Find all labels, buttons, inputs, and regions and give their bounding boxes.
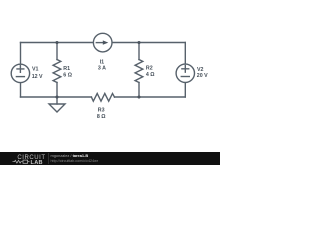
svg-text:R2: R2	[146, 66, 153, 72]
I1 arrow head	[103, 40, 109, 44]
svg-text:3 A: 3 A	[98, 66, 106, 72]
footer divider	[48, 153, 50, 164]
svg-text:R3: R3	[98, 107, 105, 113]
svg-text:8 Ω: 8 Ω	[97, 114, 106, 120]
ground triangle	[49, 104, 65, 112]
junction dot R1/ground bottom	[55, 95, 58, 98]
wire R2 top lead	[138, 43, 140, 60]
svg-text:V2: V2	[197, 67, 204, 73]
junction dot R2 top	[137, 41, 140, 44]
junction dot R1 top	[55, 41, 58, 44]
svg-text:R1: R1	[63, 66, 70, 72]
svg-text:I1: I1	[100, 59, 104, 65]
resistor R1	[53, 60, 61, 83]
svg-text:4 Ω: 4 Ω	[146, 72, 155, 78]
V1 minus sign	[16, 76, 24, 78]
resistor R3	[91, 94, 114, 102]
wire R1 bottom lead	[56, 83, 58, 98]
wire left vertical lower	[20, 83, 22, 97]
junction dot R2 bottom	[137, 95, 140, 98]
V1 plus sign	[17, 66, 24, 73]
resistor R2	[135, 60, 143, 83]
wire top right	[112, 42, 185, 44]
V2 minus sign	[181, 76, 189, 78]
svg-text:mgonzalez / tarea1-B: mgonzalez / tarea1-B	[51, 153, 89, 158]
wire R1 top lead	[56, 43, 58, 60]
wire R2 bottom lead	[138, 83, 140, 98]
svg-text:V1: V1	[32, 66, 39, 72]
wire right vertical lower	[184, 83, 186, 98]
wire top left (node A)	[21, 42, 94, 44]
svg-text:20 V: 20 V	[197, 73, 208, 79]
svg-text:6 Ω: 6 Ω	[63, 72, 72, 78]
current source I1	[93, 33, 112, 52]
voltage source V1	[11, 64, 29, 82]
ground stub	[56, 97, 58, 104]
I1 arrow shaft	[96, 42, 103, 44]
wire right vertical upper	[184, 43, 186, 65]
footer watermark bar	[0, 152, 220, 165]
wire bottom right	[115, 96, 186, 98]
logo wire + resistor glyph	[13, 160, 30, 163]
voltage source V2	[176, 64, 194, 82]
svg-text:LAB: LAB	[31, 160, 43, 165]
svg-text:http://circuitlab.com/c/c424wr: http://circuitlab.com/c/c424wr	[51, 159, 99, 163]
wire bottom left	[21, 96, 92, 98]
V2 plus sign	[182, 65, 189, 72]
wire left vertical upper	[20, 43, 22, 65]
svg-text:12 V: 12 V	[32, 74, 43, 80]
